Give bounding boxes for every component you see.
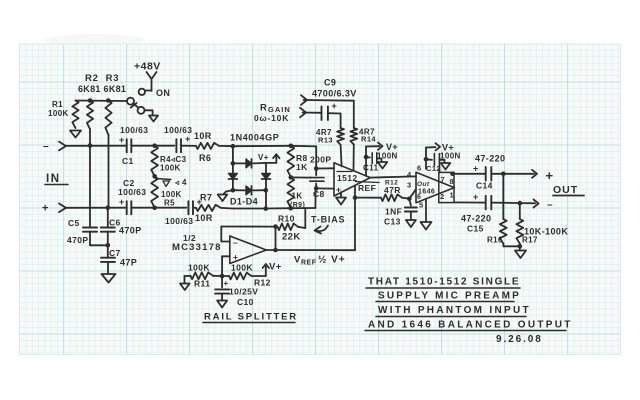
svg-text:+: + (119, 197, 125, 207)
svg-text:R5: R5 (164, 199, 175, 208)
svg-text:100/63: 100/63 (165, 216, 193, 226)
svg-text:R14: R14 (361, 135, 376, 144)
svg-text:C9: C9 (324, 78, 336, 88)
svg-text:SUPPLY MIC PREAMP: SUPPLY MIC PREAMP (378, 291, 521, 302)
svg-text:+: + (185, 134, 191, 144)
svg-text:+: + (224, 279, 229, 288)
svg-text:+: + (42, 203, 49, 215)
svg-text:10/25V: 10/25V (229, 287, 258, 297)
svg-text:100/63: 100/63 (120, 125, 148, 135)
svg-text:1N4004GP: 1N4004GP (230, 133, 279, 143)
svg-text:47P: 47P (120, 258, 137, 268)
svg-text:1K: 1K (296, 162, 308, 172)
svg-text:100/63: 100/63 (118, 187, 146, 197)
svg-text:1NF: 1NF (385, 207, 402, 217)
svg-text:47-220: 47-220 (461, 214, 491, 224)
svg-text:1: 1 (450, 191, 455, 200)
svg-text:R: R (260, 103, 267, 114)
svg-text:C15: C15 (467, 224, 484, 234)
svg-text:4700/6.3V: 4700/6.3V (312, 89, 357, 99)
svg-text:9.26.08: 9.26.08 (496, 334, 543, 345)
svg-text:470P: 470P (119, 226, 142, 236)
svg-text:–: – (547, 200, 553, 211)
svg-text:C10: C10 (237, 297, 254, 307)
svg-text:+: + (473, 164, 479, 174)
svg-text:470P: 470P (67, 235, 88, 245)
svg-text:D1-D4: D1-D4 (230, 197, 258, 207)
svg-text:3: 3 (407, 181, 412, 190)
svg-text:1512: 1512 (337, 173, 358, 183)
svg-text:Out: Out (417, 181, 430, 188)
svg-text:+48V: +48V (134, 61, 161, 73)
svg-text:C13: C13 (384, 217, 401, 227)
svg-text:R7: R7 (200, 193, 212, 203)
svg-text:T-BIAS: T-BIAS (311, 215, 345, 225)
svg-text:½ V+: ½ V+ (318, 255, 346, 266)
svg-text:–: – (43, 141, 49, 152)
svg-text:10K-100K: 10K-100K (524, 227, 568, 237)
svg-text:100K: 100K (188, 263, 210, 273)
svg-text:+: + (546, 168, 554, 183)
svg-text:6: 6 (417, 164, 422, 173)
svg-text:V+: V+ (258, 153, 269, 162)
svg-text:R17: R17 (522, 236, 538, 245)
svg-text:47-220: 47-220 (475, 154, 505, 164)
svg-text:C5: C5 (68, 218, 80, 228)
svg-text:200P: 200P (310, 155, 331, 165)
svg-text:0ω-10K: 0ω-10K (254, 113, 289, 123)
svg-text:R1: R1 (52, 100, 63, 109)
svg-text:100K: 100K (231, 263, 253, 273)
svg-text:R10: R10 (278, 214, 295, 224)
svg-text:+: + (473, 192, 479, 202)
svg-text:V+: V+ (269, 262, 282, 273)
svg-text:C1: C1 (122, 156, 134, 166)
svg-text:C11: C11 (363, 164, 379, 173)
svg-text:1K: 1K (292, 192, 303, 201)
svg-text:+: + (233, 252, 238, 262)
svg-text:–: – (233, 238, 238, 248)
svg-text:7: 7 (441, 175, 446, 184)
svg-text:22K: 22K (282, 232, 301, 243)
svg-text:R6: R6 (199, 153, 211, 163)
svg-text:C7: C7 (109, 248, 121, 258)
svg-text:REF: REF (301, 260, 317, 267)
svg-text:WITH PHANTOM INPUT: WITH PHANTOM INPUT (378, 305, 531, 316)
svg-text:C14: C14 (476, 181, 493, 191)
svg-text:4: 4 (407, 170, 412, 179)
svg-text:5: 5 (419, 201, 424, 210)
svg-text:100K: 100K (160, 164, 181, 173)
svg-text:10R: 10R (195, 213, 213, 223)
svg-text:6K81 6K81: 6K81 6K81 (78, 84, 126, 94)
svg-text:R11: R11 (194, 279, 210, 289)
svg-text:8: 8 (450, 177, 455, 186)
svg-text:MC33178: MC33178 (172, 242, 222, 253)
svg-text:2: 2 (440, 192, 445, 201)
svg-text:V+: V+ (386, 142, 398, 152)
svg-text:ON: ON (156, 88, 170, 98)
svg-text:R13: R13 (318, 136, 333, 145)
svg-text:RAIL SPLITTER: RAIL SPLITTER (204, 312, 298, 323)
svg-text:10R: 10R (194, 131, 212, 141)
svg-text:47R: 47R (384, 185, 401, 195)
svg-text:100K: 100K (48, 109, 69, 118)
svg-text:◃ 4: ◃ 4 (174, 178, 187, 187)
svg-text:R2 R3: R2 R3 (85, 73, 119, 84)
svg-text:100/63: 100/63 (164, 125, 192, 135)
svg-text:REF: REF (358, 183, 376, 193)
svg-text:+: + (119, 135, 125, 145)
svg-text:R16: R16 (487, 236, 503, 245)
svg-text:AND 1646 BALANCED OUTPUT: AND 1646 BALANCED OUTPUT (368, 320, 573, 331)
svg-text:THAT 1510-1512 SINGLE: THAT 1510-1512 SINGLE (368, 277, 520, 288)
svg-text:OUT: OUT (553, 184, 578, 196)
svg-text:V: V (294, 255, 301, 266)
svg-text:IN: IN (46, 173, 61, 185)
svg-text:+: + (332, 101, 338, 111)
